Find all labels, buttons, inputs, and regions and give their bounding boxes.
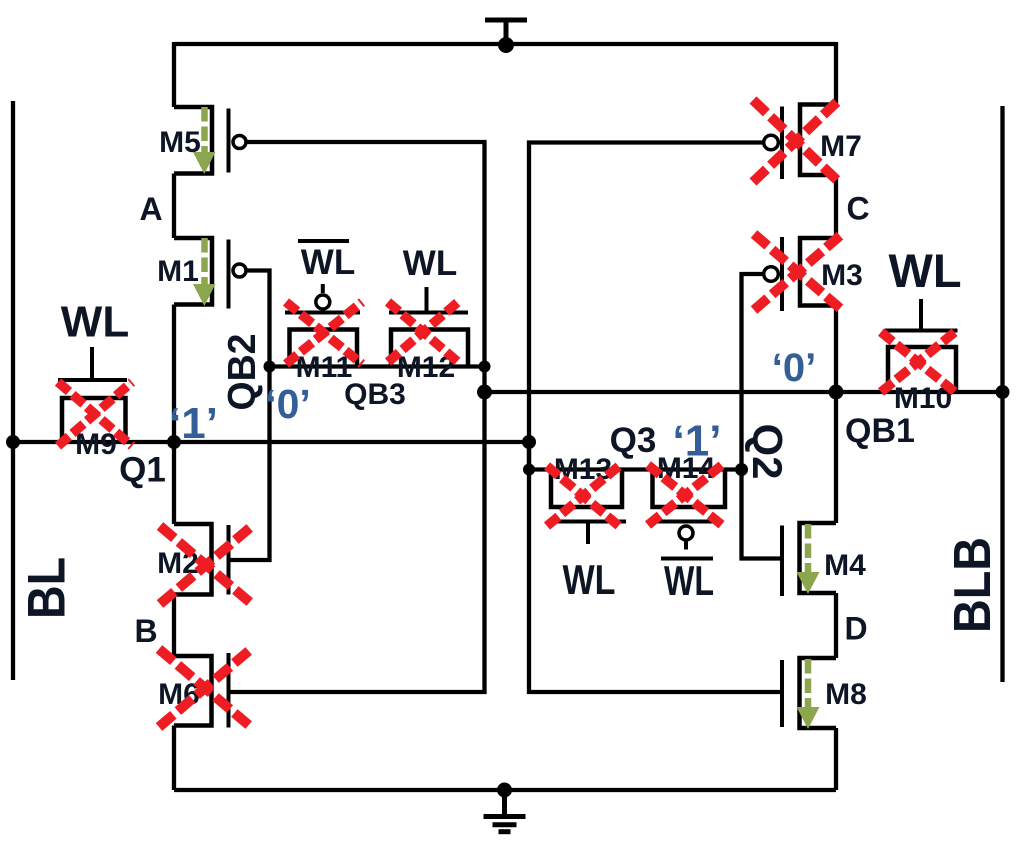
junction QB2-QB3 <box>264 361 276 373</box>
fault X over M12 <box>388 302 458 362</box>
svg-text:Q2: Q2 <box>744 423 791 479</box>
junction VDD <box>498 37 514 53</box>
svg-text:B: B <box>134 613 157 649</box>
fault X over M14 <box>648 465 722 525</box>
svg-text:M7: M7 <box>820 130 862 163</box>
wire QB1 to M4 drain <box>834 392 838 523</box>
wire node QB1 horizontal <box>485 390 1003 394</box>
svg-text:‘1’: ‘1’ <box>673 417 722 466</box>
junction QB1-BLB <box>996 385 1010 399</box>
wire node Q3 horizontal (through M13 M14) <box>529 467 742 471</box>
label WLbar (M14 gate) <box>661 557 714 604</box>
wire node Q1 horizontal <box>13 440 529 444</box>
wire node A (M5 to M1) <box>172 174 176 239</box>
svg-text:WL: WL <box>888 244 961 297</box>
transistor M6 (NMOS) <box>174 653 229 728</box>
svg-text:Q1: Q1 <box>119 451 166 490</box>
fault X over M11 <box>286 302 362 364</box>
junction Q3 left end <box>523 464 535 476</box>
transistor M13 (access) <box>547 470 626 545</box>
svg-text:WL: WL <box>664 557 714 604</box>
svg-text:QB2: QB2 <box>221 334 264 411</box>
junction QB3 right end <box>479 361 491 373</box>
wire node Q2: M3 gate down to M4 gate <box>742 274 785 559</box>
transistor M14 (access, PMOS bubble) <box>650 470 726 550</box>
svg-text:WL: WL <box>563 556 616 603</box>
svg-text:WL: WL <box>301 243 355 282</box>
svg-text:WL: WL <box>403 244 457 283</box>
wire VDD top rail <box>174 42 836 46</box>
fault X over M10 <box>881 332 955 392</box>
current arrow through M8 <box>797 659 820 729</box>
wire bitline BL <box>11 101 15 680</box>
transistor M3 (PMOS) <box>764 237 836 311</box>
wire M8 source to GND rail <box>834 728 838 790</box>
fault X over M13 <box>547 466 619 526</box>
svg-text:M8: M8 <box>825 678 867 711</box>
current arrow through M4 <box>797 524 820 594</box>
svg-text:‘0’: ‘0’ <box>772 346 816 390</box>
junction GND <box>497 783 512 798</box>
current arrow through M1 <box>193 238 216 306</box>
wire left chain VDD to M5 <box>172 42 176 107</box>
wire node QB2: M1 gate down to M2 gate <box>227 271 270 561</box>
fault X over M3 <box>754 234 842 310</box>
svg-text:‘1’: ‘1’ <box>169 399 218 448</box>
svg-text:M3: M3 <box>821 259 863 292</box>
svg-text:M9: M9 <box>75 428 117 461</box>
wire Q1 to M2 drain <box>172 442 176 524</box>
transistor M5 (PMOS) <box>174 107 246 174</box>
fault X over M2 <box>160 526 252 604</box>
transistor M8 (NMOS) <box>782 658 836 728</box>
wire right chain VDD to M7 <box>834 42 838 105</box>
junction Q1 right end <box>522 435 536 449</box>
fault X over M7 <box>753 100 839 182</box>
wire M7 gate to line Q1 vertical and down to M8 gate <box>529 143 784 693</box>
junction node Q2 <box>735 463 748 476</box>
wire node D (M4 to M8) <box>834 593 838 658</box>
power VDD symbol <box>485 20 527 44</box>
transistor M10 (access, on BLB) <box>885 299 958 392</box>
wire M3 drain to QB1 <box>834 306 838 393</box>
fault X over M6 <box>159 649 251 727</box>
svg-text:WL: WL <box>61 298 129 347</box>
fault X over M9 <box>58 382 132 446</box>
ground symbol <box>484 790 526 832</box>
wire node C (M7 to M3) <box>834 175 838 238</box>
transistor M7 (PMOS) <box>764 105 836 180</box>
junction Q1 left chain <box>167 435 181 449</box>
svg-text:QB1: QB1 <box>845 412 915 450</box>
wire node B (M2 to M6) <box>172 595 176 657</box>
wire M1 drain to Q1 <box>172 305 176 443</box>
wire node QB3 horizontal (through M11 M12) <box>270 364 485 368</box>
svg-text:M4: M4 <box>824 549 866 582</box>
wire M6 source to GND rail <box>172 726 176 791</box>
transistor M11 (access, PMOS bubble) <box>285 284 360 367</box>
svg-text:‘0’: ‘0’ <box>265 381 311 427</box>
junction QB1 left end <box>477 385 492 400</box>
wire Q1-Q3 vertical stub <box>527 442 531 470</box>
svg-text:Q3: Q3 <box>610 421 657 460</box>
wire bitline BLB <box>1000 106 1004 682</box>
svg-text:D: D <box>844 611 867 647</box>
label WLbar (M11 gate) <box>298 241 355 282</box>
svg-text:BL: BL <box>18 557 77 619</box>
svg-text:A: A <box>139 191 162 227</box>
svg-text:BLB: BLB <box>944 537 1002 633</box>
transistor M12 (access) <box>389 287 468 367</box>
svg-text:M1: M1 <box>157 255 199 288</box>
transistor M1 (PMOS) <box>174 238 246 309</box>
wire GND bottom rail <box>174 788 836 792</box>
current arrow through M5 <box>193 107 216 174</box>
wire M5 gate to line QB3 vertical and down to M6 gate <box>227 142 485 692</box>
junction QB1 right chain <box>829 385 844 400</box>
junction BL-Q1 <box>6 435 20 449</box>
transistor M9 (access, on BL) <box>58 347 127 442</box>
svg-text:QB3: QB3 <box>344 378 406 411</box>
svg-text:C: C <box>846 191 869 227</box>
transistor M4 (NMOS) <box>782 523 836 596</box>
transistor M2 (NMOS) <box>174 524 229 595</box>
